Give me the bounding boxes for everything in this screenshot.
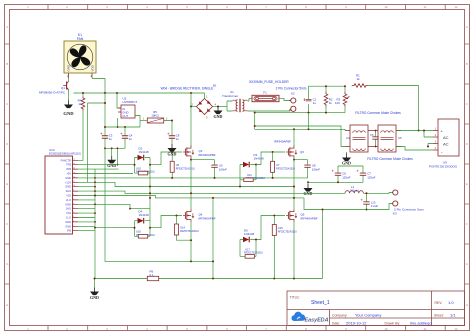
svg-text:B: B xyxy=(6,62,8,66)
svg-text:1HO: 1HO xyxy=(66,207,71,211)
svg-text:100nF: 100nF xyxy=(312,167,320,171)
svg-text:PONTE DE DIODOS: PONTE DE DIODOS xyxy=(429,164,457,168)
svg-text:FAN: FAN xyxy=(77,37,84,41)
svg-text:FILTRO Common Mode Chokes: FILTRO Common Mode Chokes xyxy=(355,111,401,115)
svg-text:RF25CT52A331U: RF25CT52A331U xyxy=(278,231,297,234)
wire fan VDD to node xyxy=(92,79,105,94)
svg-text:F: F xyxy=(6,222,8,226)
svg-text:13: 13 xyxy=(73,172,75,174)
svg-text:Company:: Company: xyxy=(332,313,348,317)
svg-text:GND: GND xyxy=(65,224,71,228)
svg-text:GND: GND xyxy=(107,163,116,168)
choke U4 xyxy=(345,125,373,152)
svg-text:lino.addiego: lino.addiego xyxy=(410,320,432,325)
svg-text:100: 100 xyxy=(335,101,340,105)
svg-text:U15: U15 xyxy=(278,226,283,230)
svg-text:RF25CT52A331U: RF25CT52A331U xyxy=(176,167,195,170)
svg-text:U6: U6 xyxy=(176,163,180,167)
wire return rail W8 y197.9 xyxy=(95,196,304,198)
wire bridge top to rail xyxy=(204,93,206,99)
svg-text:H: H xyxy=(6,303,8,307)
svg-text:0.1: 0.1 xyxy=(150,273,154,277)
svg-text:1u: 1u xyxy=(129,137,133,141)
IC U13 EG8010 xyxy=(45,148,81,234)
svg-text:1.0: 1.0 xyxy=(448,300,454,305)
inductor L1 xyxy=(345,185,363,193)
wire C4 top lead xyxy=(124,127,126,131)
svg-text:TITLE:: TITLE: xyxy=(290,296,300,300)
svg-text:+5V: +5V xyxy=(66,172,71,176)
EasyEDA logo xyxy=(291,312,328,324)
wire L1 to K3 top xyxy=(363,192,392,195)
wire Q4 source to bottom bus xyxy=(190,222,192,261)
wire bus vertical x95 xyxy=(94,169,96,278)
svg-text:TFB: TFB xyxy=(66,163,71,167)
wire transformer left link xyxy=(227,101,233,111)
wire U5 to U9 pin4 xyxy=(396,147,433,151)
svg-text:GND: GND xyxy=(63,111,74,116)
wire Q2 drain column xyxy=(190,93,192,147)
svg-text:15: 15 xyxy=(73,163,75,165)
capacitor C1 xyxy=(304,98,317,106)
svg-text:17: 17 xyxy=(73,159,75,161)
wire TFB to cluster A xyxy=(78,164,135,166)
svg-text:10: 10 xyxy=(73,185,75,187)
svg-text:5: 5 xyxy=(73,207,74,209)
svg-text:1N4148: 1N4148 xyxy=(254,157,265,161)
svg-text:10: 10 xyxy=(384,5,388,9)
wire bridge right to transformer xyxy=(213,106,228,108)
svg-text:Sheet:: Sheet: xyxy=(434,313,444,317)
svg-text:GND: GND xyxy=(214,114,223,119)
wire R1 to U9 pin1 column xyxy=(368,86,419,131)
resistor R5 xyxy=(143,110,168,123)
wire snubber bottom rail xyxy=(255,104,345,113)
svg-text:11: 11 xyxy=(73,181,75,183)
svg-text:GND: GND xyxy=(65,202,71,206)
svg-text:RF25CT52A331U: RF25CT52A331U xyxy=(276,167,295,170)
wire C3/C4 top link xyxy=(105,126,140,128)
svg-text:U4: U4 xyxy=(346,136,350,140)
capacitor U3 snubber xyxy=(211,160,227,179)
svg-text:U13: U13 xyxy=(49,148,55,152)
svg-text:E: E xyxy=(6,182,8,186)
transistor Q3 xyxy=(274,139,304,158)
svg-text:Transformer: Transformer xyxy=(222,94,238,98)
wire cluster D out to Q5 gate xyxy=(256,216,285,240)
svg-text:GND: GND xyxy=(65,220,71,224)
choke U5 xyxy=(373,125,402,152)
svg-text:REV:: REV: xyxy=(435,301,443,305)
title block xyxy=(287,291,465,326)
svg-text:MPS8050-D-AT/PC: MPS8050-D-AT/PC xyxy=(39,91,66,95)
title block texts xyxy=(290,296,444,326)
svg-text:1u: 1u xyxy=(313,101,317,105)
wire R5 left lead xyxy=(140,120,147,122)
node dots on rail 93 xyxy=(82,92,192,94)
svg-text:GND: GND xyxy=(342,161,351,166)
wire transformer to K2 bottom xyxy=(248,110,291,111)
svg-text:EGS002(EG8010+IR2110): EGS002(EG8010+IR2110) xyxy=(49,151,81,155)
svg-text:11: 11 xyxy=(424,327,427,331)
capacitor L13 xyxy=(361,192,379,210)
voltage regulator U2 xyxy=(118,97,138,119)
transistor Q2 xyxy=(183,146,216,159)
ground GND7 xyxy=(90,279,99,301)
svg-text:H: H xyxy=(466,303,468,307)
wire cluster B loop xyxy=(135,221,151,237)
svg-text:IRF940APBF: IRF940APBF xyxy=(199,153,216,157)
svg-text:1N4148: 1N4148 xyxy=(139,213,150,217)
wire to cluster B xyxy=(95,227,135,229)
wire Q1 emitter to GND1 xyxy=(68,90,70,101)
svg-text:125uF: 125uF xyxy=(367,175,375,179)
svg-text:A: A xyxy=(466,25,468,29)
svg-text:E: E xyxy=(466,182,468,186)
resistor R6 xyxy=(147,270,158,281)
svg-text:G: G xyxy=(466,262,468,266)
svg-text:OUT: OUT xyxy=(122,114,128,118)
svg-text:8: 8 xyxy=(73,194,74,196)
wire R4 bottom to FANCTR pin xyxy=(78,111,83,161)
svg-text:D: D xyxy=(6,142,8,146)
wire U2 gnd pin down xyxy=(117,118,119,127)
capacitor C5 xyxy=(370,130,379,148)
wire mid vertical x150 xyxy=(149,173,151,221)
svg-text:B: B xyxy=(466,62,468,66)
wire U9 pin3 stub xyxy=(428,144,433,147)
svg-text:VFB: VFB xyxy=(66,167,71,171)
svg-text:1/1: 1/1 xyxy=(450,312,456,317)
svg-text:1: 1 xyxy=(73,225,74,227)
wire K3 bottom return xyxy=(304,198,392,210)
svg-text:Q3: Q3 xyxy=(300,150,304,154)
svg-text:LM7805CT: LM7805CT xyxy=(123,100,138,104)
ground GND2 xyxy=(168,144,177,157)
resistor U17 xyxy=(240,247,263,258)
svg-text:Drawn By:: Drawn By: xyxy=(385,321,401,325)
resistor R1 xyxy=(352,74,368,88)
svg-text:B1: B1 xyxy=(213,83,217,87)
wire U2 OUT to R5 xyxy=(135,116,140,128)
wire Q3 source to U8 xyxy=(294,159,308,161)
svg-text:U5: U5 xyxy=(398,136,402,140)
wire R5 right to C8 xyxy=(164,121,172,132)
svg-text:EasyEDA: EasyEDA xyxy=(305,317,329,323)
svg-text:12: 12 xyxy=(454,5,458,9)
wire fuse to K2 top xyxy=(279,98,290,100)
svg-text:1k: 1k xyxy=(78,102,82,106)
svg-text:1u: 1u xyxy=(176,137,180,141)
wire U3 column link xyxy=(191,159,215,161)
wire main top rail y93 xyxy=(74,92,205,94)
svg-text:2019-10-12: 2019-10-12 xyxy=(346,320,367,325)
wire bottom bus lower xyxy=(95,210,323,279)
svg-text:W04 - BRIDGE RECTIFIER, SINGLE: W04 - BRIDGE RECTIFIER, SINGLE xyxy=(161,87,214,91)
svg-text:VS2: VS2 xyxy=(66,194,71,198)
ground GND4 xyxy=(214,107,223,119)
capacitor C8 xyxy=(167,131,179,143)
svg-text:IRF940APBF: IRF940APBF xyxy=(301,216,318,220)
wire Q3 drain column xyxy=(293,129,295,146)
wire choke feed upper y129.3 xyxy=(255,129,345,130)
capacitor C4 xyxy=(120,131,132,143)
transistor Q4 xyxy=(183,209,216,222)
resistor U10 xyxy=(135,167,156,175)
svg-text:IFB: IFB xyxy=(67,229,71,233)
svg-text:GND: GND xyxy=(65,185,71,189)
diode D3 xyxy=(240,153,264,167)
svg-text:14: 14 xyxy=(73,168,75,170)
diode D4 xyxy=(135,210,151,224)
wire C3-net down to cluster A input row xyxy=(117,148,119,164)
resistor U11 xyxy=(240,173,265,182)
capacitor C6 xyxy=(332,170,351,180)
svg-text:1k: 1k xyxy=(329,101,333,105)
wire fan GND to Q1 collector xyxy=(68,78,70,82)
wire bridge left to Q2 drain column xyxy=(191,106,197,108)
wire U9 pin2 stub xyxy=(424,131,433,138)
svg-text:RF25CT52A331U: RF25CT52A331U xyxy=(244,251,263,254)
wire cluster C loop xyxy=(240,165,256,187)
ground GND1 xyxy=(63,101,74,117)
wire cluster C out to Q3 gate xyxy=(256,152,285,165)
wire snubber top rail xyxy=(309,86,346,99)
resistor U7 xyxy=(271,152,296,179)
resistor R4 xyxy=(78,97,85,111)
svg-text:G: G xyxy=(6,262,8,266)
fuse F1 xyxy=(249,80,289,102)
wire Q2 source to Q4 drain column xyxy=(190,159,192,210)
svg-text:1N4148: 1N4148 xyxy=(244,232,255,236)
diode bridge U9 xyxy=(429,119,459,168)
transistor Q5 xyxy=(286,209,318,222)
svg-text:2HO: 2HO xyxy=(66,189,71,193)
wire top rail to R1 xyxy=(351,85,353,88)
svg-text:C5: C5 xyxy=(370,133,374,137)
wire caps bottom rail xyxy=(308,175,363,182)
ground GND3 xyxy=(107,156,116,168)
svg-text:C: C xyxy=(466,102,468,106)
svg-text:10KΩ: 10KΩ xyxy=(151,114,159,118)
frame ticks left xyxy=(5,44,10,284)
resistor U14 xyxy=(175,216,200,242)
svg-text:GND: GND xyxy=(65,176,71,180)
svg-text:2 Pin Connector 5mm: 2 Pin Connector 5mm xyxy=(276,86,307,90)
svg-text:10: 10 xyxy=(384,327,388,331)
svg-text:Sheet_1: Sheet_1 xyxy=(311,300,330,306)
wire vertical node 105 down to C3 xyxy=(104,93,106,131)
svg-text:5X20MM_FUSE_HOLDER: 5X20MM_FUSE_HOLDER xyxy=(249,80,289,84)
svg-text:VS1: VS1 xyxy=(66,211,71,215)
wire staircase row 204 xyxy=(95,204,150,208)
capacitor U8 snubber xyxy=(304,160,320,178)
fan K1 xyxy=(64,33,96,78)
connector K3 xyxy=(392,190,424,216)
svg-text:C: C xyxy=(6,102,8,106)
svg-text:100nF: 100nF xyxy=(219,167,227,171)
wire mid rail W9 y177.9 xyxy=(95,177,308,179)
frame ticks bottom xyxy=(48,326,445,331)
svg-text:U14: U14 xyxy=(180,226,185,230)
capacitor C3 xyxy=(100,131,112,143)
capacitor C7 xyxy=(357,170,376,180)
svg-text:K3: K3 xyxy=(393,212,397,216)
svg-text:9: 9 xyxy=(73,190,74,192)
wire cap top link C6 C7 xyxy=(338,166,363,173)
svg-text:2.2uF: 2.2uF xyxy=(371,204,379,208)
svg-text:1LO: 1LO xyxy=(66,216,71,220)
svg-text:3: 3 xyxy=(73,216,74,218)
svg-text:AC: AC xyxy=(443,135,449,140)
svg-text:Your Company: Your Company xyxy=(355,312,381,317)
wire aux left vertical to +12V pin xyxy=(88,103,106,182)
svg-text:4: 4 xyxy=(73,212,74,214)
svg-text:2LO: 2LO xyxy=(66,198,71,202)
wire Q1 base to R4 xyxy=(82,93,84,97)
wire Q3 source to Q5 drain column xyxy=(293,159,295,210)
svg-text:GND: GND xyxy=(67,64,71,72)
diode D6 xyxy=(240,229,256,243)
svg-text:Date:: Date: xyxy=(332,321,340,325)
svg-text:7: 7 xyxy=(73,198,74,200)
svg-text:A: A xyxy=(6,25,8,29)
svg-text:2: 2 xyxy=(73,220,74,222)
transistor Q1 xyxy=(39,82,68,95)
wire U5 to U9 pin1 xyxy=(396,130,433,132)
wire transformer to fuse xyxy=(248,98,253,101)
ground GND6 xyxy=(304,182,313,196)
svg-text:AC: AC xyxy=(443,141,449,146)
svg-text:F: F xyxy=(466,222,468,226)
svg-text:12: 12 xyxy=(454,327,458,331)
svg-text:U7: U7 xyxy=(276,163,280,167)
svg-text:1u: 1u xyxy=(109,137,113,141)
svg-text:D: D xyxy=(466,142,468,146)
svg-text:1N4148: 1N4148 xyxy=(139,150,150,154)
svg-text:+12V: +12V xyxy=(65,180,71,184)
wire Q5 source to bottom bus xyxy=(293,222,295,279)
wire cluster D loop xyxy=(240,240,256,257)
frame ticks top xyxy=(48,5,445,10)
svg-text:IRF940APBF: IRF940APBF xyxy=(274,139,291,143)
svg-text:11: 11 xyxy=(424,5,427,9)
wire C3 C4 bottoms join xyxy=(105,143,125,156)
wire IC pin stub wires to bus xyxy=(78,169,133,231)
wire C8 bottom xyxy=(171,143,173,144)
resistor U15 xyxy=(272,216,297,279)
svg-text:6: 6 xyxy=(73,203,74,205)
resistor U6 xyxy=(170,152,195,179)
wire cluster B out to Q4 gate xyxy=(150,216,182,228)
svg-text:GND: GND xyxy=(90,295,99,300)
svg-text:FILTRO Common Mode Chokes: FILTRO Common Mode Chokes xyxy=(367,157,413,161)
resistor R2 xyxy=(324,92,333,106)
wire cluster A loop xyxy=(135,158,151,174)
wire C3 column down to lower bus xyxy=(105,148,213,261)
ground GND5 xyxy=(342,152,351,166)
wire choke feed lower y126 xyxy=(255,126,345,147)
frame ticks right xyxy=(465,44,470,284)
svg-text:FANCTR: FANCTR xyxy=(61,158,72,162)
bridge rectifier B1 xyxy=(161,83,217,119)
wire mid rail W13 y186.5 xyxy=(95,182,294,186)
resistor R3 (pot) xyxy=(335,92,350,106)
svg-text:F1: F1 xyxy=(263,90,267,94)
wire node to U2 IN xyxy=(117,93,121,108)
svg-text:125uF: 125uF xyxy=(342,175,350,179)
svg-text:2 Pin Connector 5mm: 2 Pin Connector 5mm xyxy=(394,207,424,211)
svg-text:RF25CT52A001U: RF25CT52A001U xyxy=(180,230,199,233)
wire AC rail to chokes upper xyxy=(254,113,256,130)
svg-text:2.2mH: 2.2mH xyxy=(350,189,359,193)
resistor U16 xyxy=(135,230,156,238)
wire mid vertical x213 xyxy=(212,198,214,279)
svg-text:VDD: VDD xyxy=(91,64,95,71)
svg-text:Q1: Q1 xyxy=(61,86,65,90)
diode D2 xyxy=(135,146,151,160)
wire output rail W7 y193.3 xyxy=(95,191,345,193)
wire cluster A out to Q2 gate xyxy=(150,152,182,165)
wire C1 column down to AC rail xyxy=(308,113,310,130)
svg-text:12: 12 xyxy=(73,176,75,178)
connector K2 xyxy=(276,86,307,111)
transformer U1 xyxy=(222,90,248,112)
